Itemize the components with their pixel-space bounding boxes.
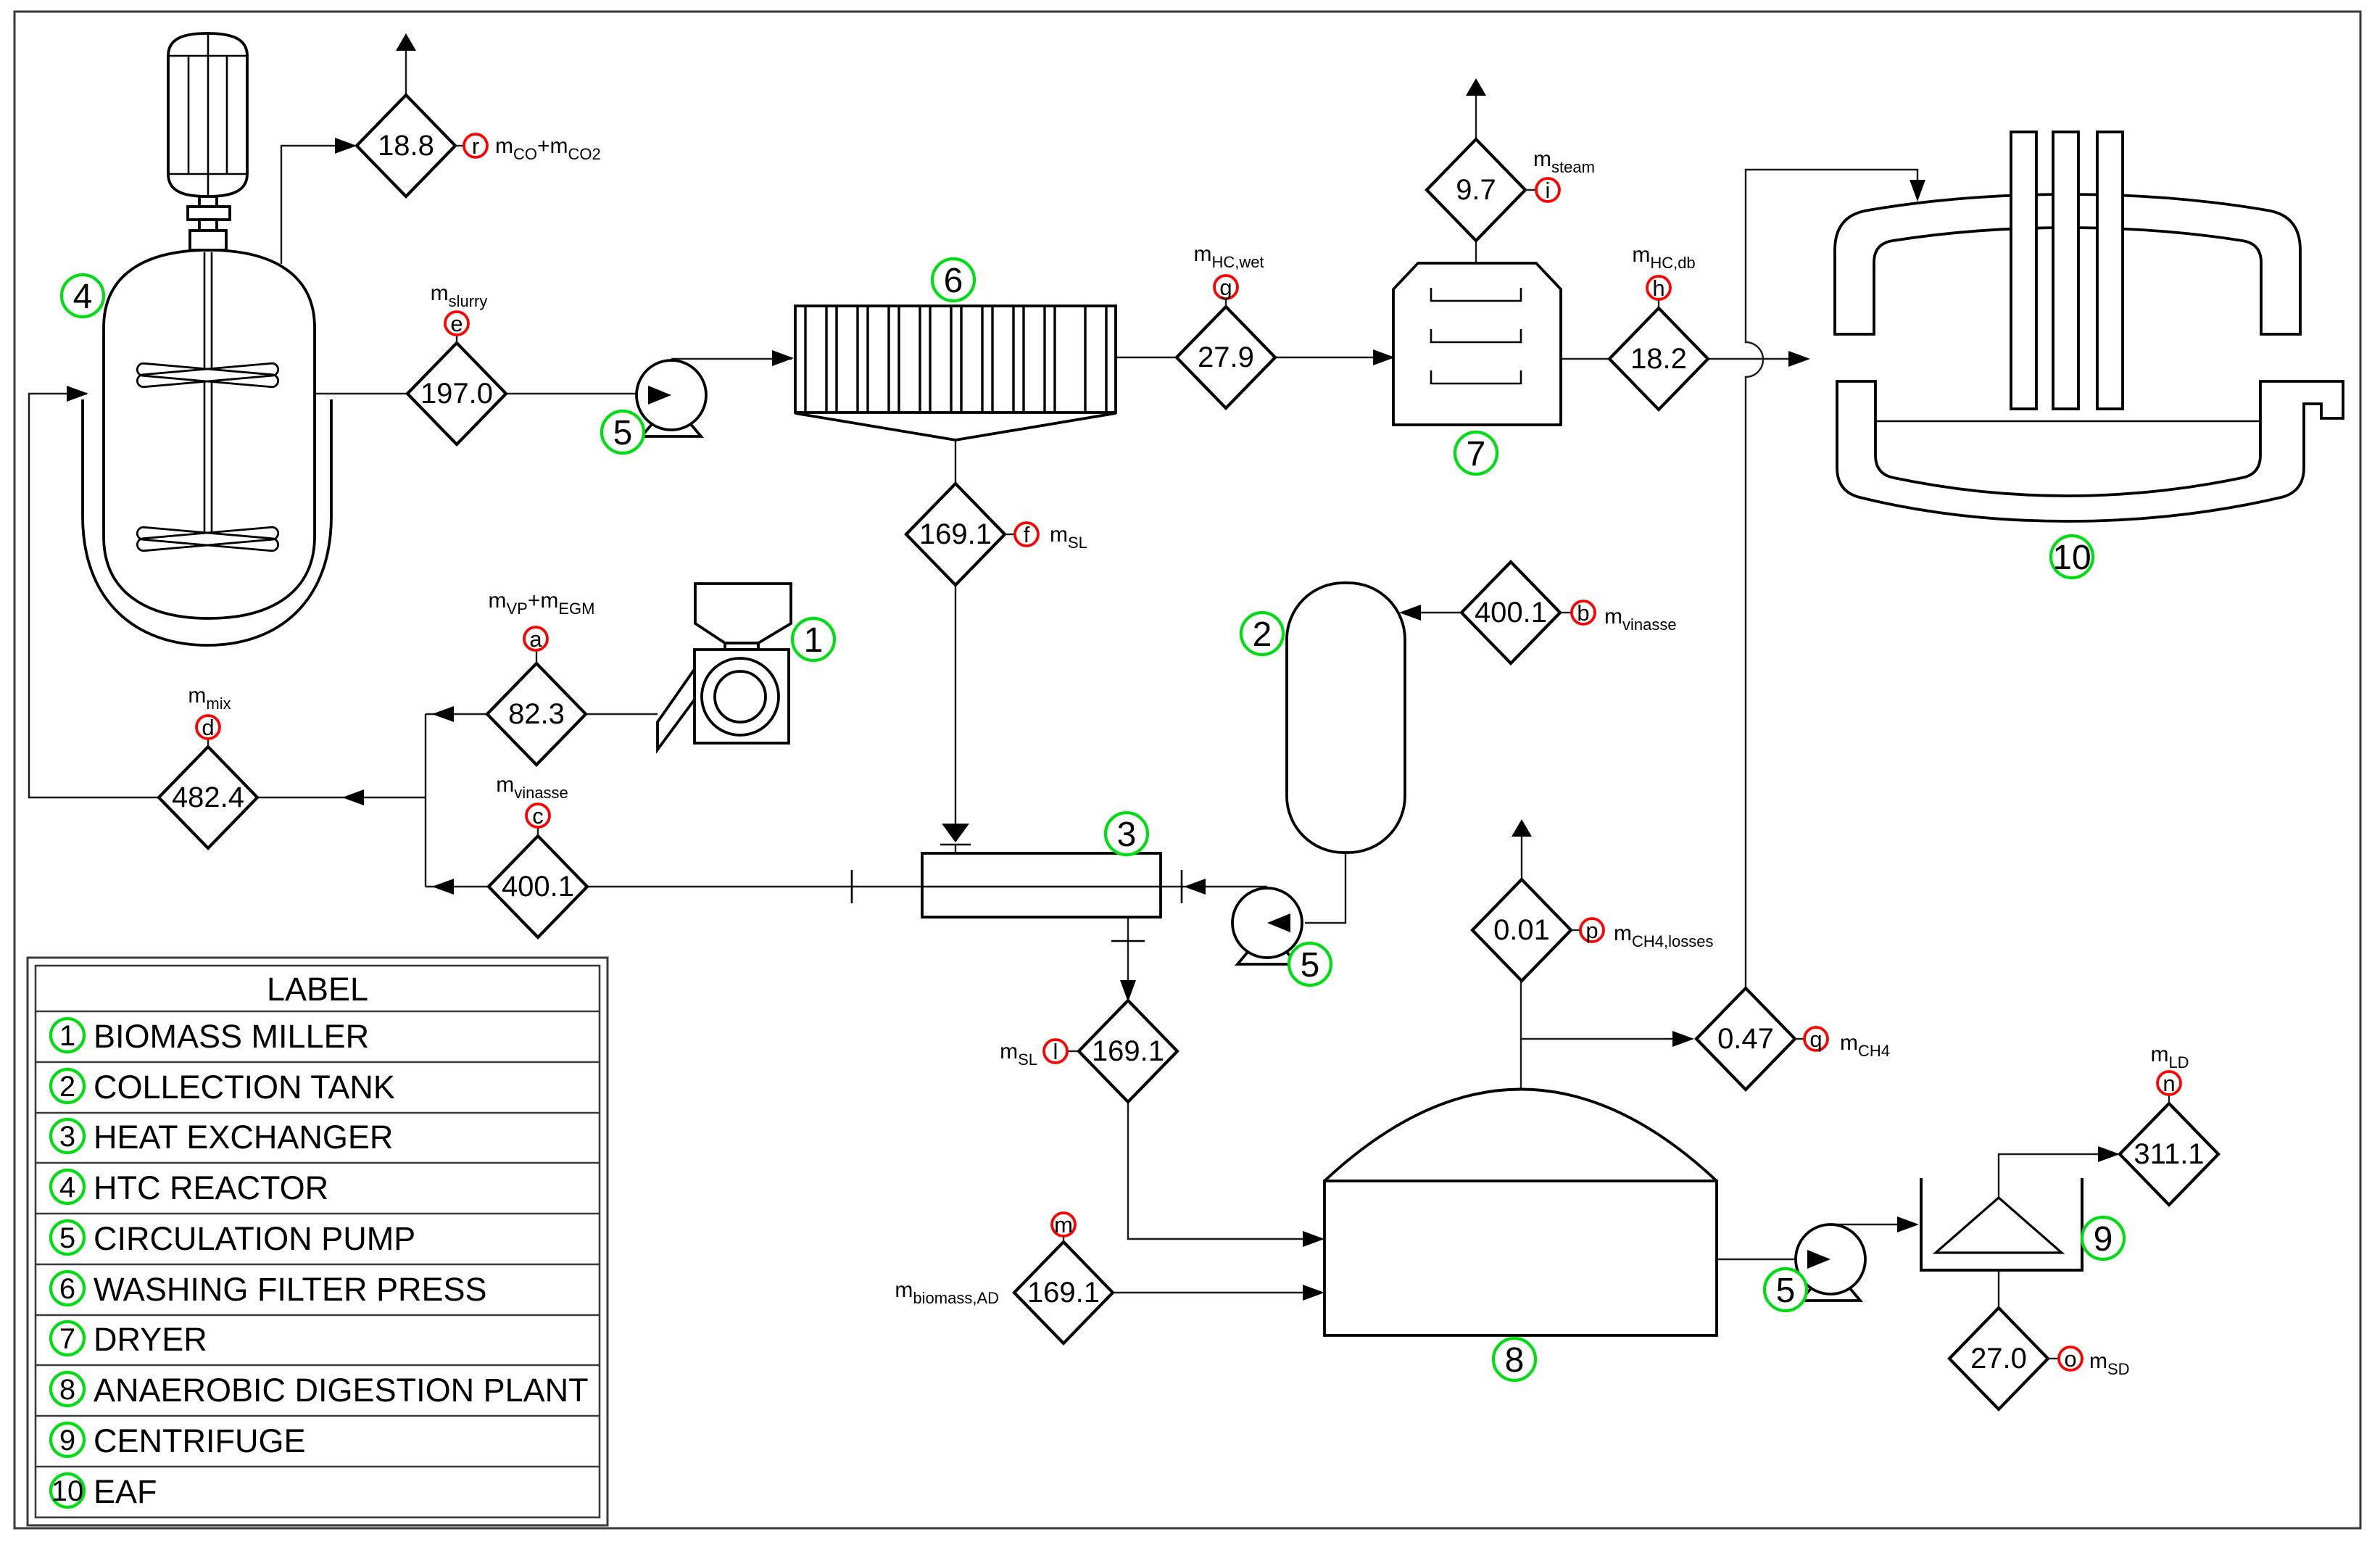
svg-text:5: 5: [1301, 946, 1320, 985]
svg-text:5: 5: [1776, 1272, 1796, 1310]
svg-text:0.47: 0.47: [1717, 1023, 1774, 1055]
svg-text:10: 10: [2052, 539, 2091, 577]
svg-text:2: 2: [59, 1071, 75, 1103]
svg-text:f: f: [1024, 522, 1030, 547]
svg-text:q: q: [1809, 1027, 1822, 1052]
svg-text:400.1: 400.1: [1475, 597, 1547, 629]
svg-text:3: 3: [59, 1121, 75, 1153]
svg-text:ANAEROBIC DIGESTION PLANT: ANAEROBIC DIGESTION PLANT: [94, 1372, 589, 1409]
svg-text:10: 10: [51, 1475, 84, 1507]
svg-text:6: 6: [944, 262, 963, 300]
svg-text:1: 1: [804, 621, 824, 660]
svg-text:9.7: 9.7: [1456, 174, 1496, 206]
svg-text:n: n: [2163, 1071, 2175, 1096]
svg-text:m: m: [1054, 1212, 1073, 1238]
svg-text:g: g: [1219, 275, 1232, 300]
svg-text:DRYER: DRYER: [94, 1321, 207, 1358]
svg-text:5: 5: [613, 414, 633, 452]
svg-text:COLLECTION TANK: COLLECTION TANK: [94, 1069, 395, 1106]
svg-text:EAF: EAF: [94, 1473, 157, 1510]
svg-text:2: 2: [1253, 615, 1272, 654]
svg-text:r: r: [472, 133, 479, 159]
svg-text:7: 7: [59, 1323, 75, 1355]
svg-text:4: 4: [59, 1172, 75, 1203]
svg-text:82.3: 82.3: [508, 698, 565, 730]
svg-text:c: c: [532, 803, 544, 829]
svg-text:4: 4: [73, 278, 93, 316]
svg-text:i: i: [1546, 178, 1551, 203]
svg-text:b: b: [1577, 600, 1589, 626]
svg-text:9: 9: [2094, 1220, 2113, 1259]
svg-text:BIOMASS MILLER: BIOMASS MILLER: [94, 1018, 369, 1055]
svg-text:400.1: 400.1: [502, 871, 574, 903]
svg-text:1: 1: [59, 1020, 75, 1052]
svg-text:311.1: 311.1: [2134, 1138, 2204, 1170]
svg-text:CIRCULATION PUMP: CIRCULATION PUMP: [94, 1220, 415, 1257]
svg-text:169.1: 169.1: [919, 518, 992, 550]
svg-text:LABEL: LABEL: [267, 971, 368, 1008]
svg-text:169.1: 169.1: [1092, 1035, 1164, 1067]
svg-text:6: 6: [59, 1273, 75, 1305]
svg-text:169.1: 169.1: [1027, 1277, 1100, 1309]
svg-text:l: l: [1053, 1039, 1058, 1064]
svg-text:9: 9: [59, 1425, 75, 1456]
svg-text:HTC REACTOR: HTC REACTOR: [94, 1169, 328, 1206]
svg-text:197.0: 197.0: [420, 378, 493, 410]
svg-text:5: 5: [59, 1222, 75, 1254]
svg-text:WASHING FILTER PRESS: WASHING FILTER PRESS: [94, 1271, 487, 1308]
svg-text:482.4: 482.4: [172, 782, 244, 813]
svg-text:8: 8: [1505, 1341, 1525, 1380]
svg-text:27.9: 27.9: [1198, 341, 1254, 373]
svg-text:3: 3: [1117, 816, 1137, 854]
svg-text:p: p: [1585, 918, 1598, 943]
svg-text:27.0: 27.0: [1970, 1343, 2027, 1375]
svg-text:a: a: [529, 626, 542, 652]
svg-text:e: e: [450, 311, 463, 336]
svg-text:0.01: 0.01: [1493, 914, 1550, 946]
svg-text:h: h: [1652, 275, 1664, 301]
svg-text:CENTRIFUGE: CENTRIFUGE: [94, 1422, 306, 1459]
svg-text:18.2: 18.2: [1630, 343, 1687, 375]
svg-text:HEAT EXCHANGER: HEAT EXCHANGER: [94, 1119, 393, 1156]
svg-text:18.8: 18.8: [378, 130, 434, 162]
svg-text:d: d: [202, 715, 214, 740]
svg-text:o: o: [2064, 1346, 2076, 1372]
svg-text:7: 7: [1467, 435, 1486, 473]
svg-text:8: 8: [59, 1374, 75, 1406]
